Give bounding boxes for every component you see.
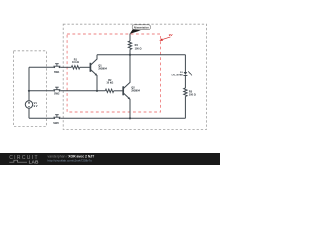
CircuitLab logo bbox=[9, 155, 39, 166]
footer url text bbox=[48, 159, 93, 163]
annotation rectangle red dashed (Alimentation zone) bbox=[67, 34, 160, 112]
node: junction Q2 emitter / row3 bbox=[129, 117, 131, 119]
svg-text:2N3904: 2N3904 bbox=[131, 90, 140, 93]
svg-text:9V: 9V bbox=[169, 33, 174, 37]
callout Alimentation bbox=[130, 25, 151, 34]
wire: R5 down to row3 bbox=[184, 96, 186, 118]
LED D1 LTL-307EE bbox=[172, 71, 193, 76]
svg-text:SW1: SW1 bbox=[54, 71, 60, 74]
svg-text:9 V: 9 V bbox=[34, 104, 38, 108]
selection box left (gray dashed) bbox=[14, 51, 47, 127]
svg-text:10 kΩ: 10 kΩ bbox=[72, 61, 79, 64]
node: junction Q1 emitter / row2 bbox=[96, 90, 98, 92]
wire: row3 ground return bbox=[29, 117, 185, 119]
wire: SW2 to R2 with Q1 emitter junction bbox=[60, 90, 105, 92]
wire: output rail bbox=[97, 54, 185, 56]
svg-text:LAB: LAB bbox=[29, 160, 39, 165]
svg-text:100 Ω: 100 Ω bbox=[189, 94, 196, 97]
transistor Q1 2N3904 bbox=[90, 55, 107, 91]
voltage source V1 bbox=[25, 101, 37, 108]
wire: left supply column bbox=[28, 67, 30, 118]
svg-text:http://circuitlab.com/c2rwk725: http://circuitlab.com/c2rwk7258z7u bbox=[48, 159, 93, 163]
svg-text:D1: D1 bbox=[180, 72, 184, 74]
svg-text:SW2: SW2 bbox=[54, 93, 60, 96]
svg-text:10 kΩ: 10 kΩ bbox=[106, 82, 113, 85]
footer bar bbox=[0, 153, 220, 165]
svg-text:2N3904: 2N3904 bbox=[98, 67, 107, 70]
resistor R1 10k bbox=[71, 59, 79, 70]
svg-text:SW3: SW3 bbox=[53, 122, 59, 125]
wire: row2 from column to SW2 bbox=[29, 90, 54, 92]
wire: row1 from column to SW1 bbox=[29, 66, 54, 68]
selection box right (gray dashed) bbox=[63, 24, 206, 129]
svg-text:LTL-307EE: LTL-307EE bbox=[172, 75, 184, 77]
wire: 9V stub above R4 bbox=[129, 34, 131, 41]
transistor Q2 2N3904 bbox=[123, 55, 140, 119]
wire: R1 to Q1 base bbox=[80, 66, 90, 68]
wire: LED branch down from rail bbox=[184, 55, 186, 72]
resistor R2 10k bbox=[105, 79, 113, 93]
svg-text:Alimentation: Alimentation bbox=[134, 26, 150, 29]
resistor R4 100 ohm bbox=[128, 41, 141, 55]
svg-text:vanderphan / XOR avec 2 NJT: vanderphan / XOR avec 2 NJT bbox=[48, 154, 96, 158]
wire: SW1 to R1 bbox=[60, 66, 71, 68]
wire: R2 to Q2 base bbox=[114, 90, 123, 92]
wire: LED to R5 bbox=[184, 75, 186, 88]
switch SW3 bbox=[53, 115, 60, 125]
switch SW1 bbox=[53, 64, 60, 74]
node: junction column/row2 bbox=[28, 90, 30, 92]
resistor R5 100 ohm bbox=[184, 88, 196, 97]
annotation arrow 9V (red) bbox=[159, 33, 173, 41]
switch SW2 bbox=[53, 87, 60, 95]
node: junction rail / R4 / Q2 collector bbox=[129, 54, 131, 56]
svg-text:100 Ω: 100 Ω bbox=[135, 47, 142, 50]
footer title text bbox=[48, 154, 96, 158]
